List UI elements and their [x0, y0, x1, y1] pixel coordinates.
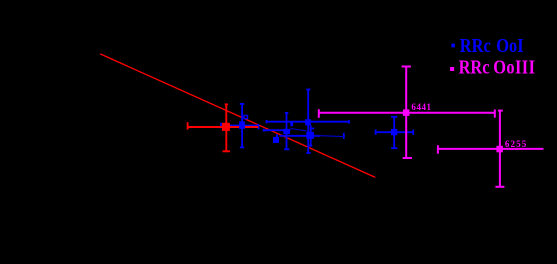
blue open marker B2 [244, 116, 248, 119]
svg-text:6255: 6255 [505, 139, 527, 149]
magenta point 6255 error bars [438, 111, 544, 187]
blue marker B4 [305, 119, 311, 125]
blue marker B3 [283, 129, 290, 134]
red point marker [222, 123, 230, 131]
blue point B3 error bars [264, 113, 291, 150]
blue point B6 error bars [280, 125, 344, 146]
blue marker B1 [239, 121, 245, 128]
blue small tick S [290, 123, 293, 127]
magenta marker 6441 [403, 109, 410, 116]
red point error bars [187, 104, 258, 151]
legend blue square [451, 44, 455, 48]
blue marker B5 [273, 137, 279, 143]
svg-text:RRcOoIII: RRcOoIII [459, 56, 536, 78]
legend magenta square [450, 67, 454, 71]
blue point B5 stub [276, 134, 278, 138]
blue point B7 error bars [375, 117, 413, 149]
magenta marker 6255 [496, 146, 503, 153]
magenta point 6441 error bars [319, 66, 495, 158]
red fit line [100, 54, 375, 177]
svg-text:6441: 6441 [411, 102, 431, 112]
blue point B1 error bars [221, 104, 259, 147]
thin blue connector L1 [291, 129, 307, 131]
blue marker B7 [391, 129, 397, 135]
blue point B4 error bars [266, 89, 349, 153]
blue marker B6 [306, 132, 314, 139]
thin blue connector L2 [314, 135, 344, 136]
